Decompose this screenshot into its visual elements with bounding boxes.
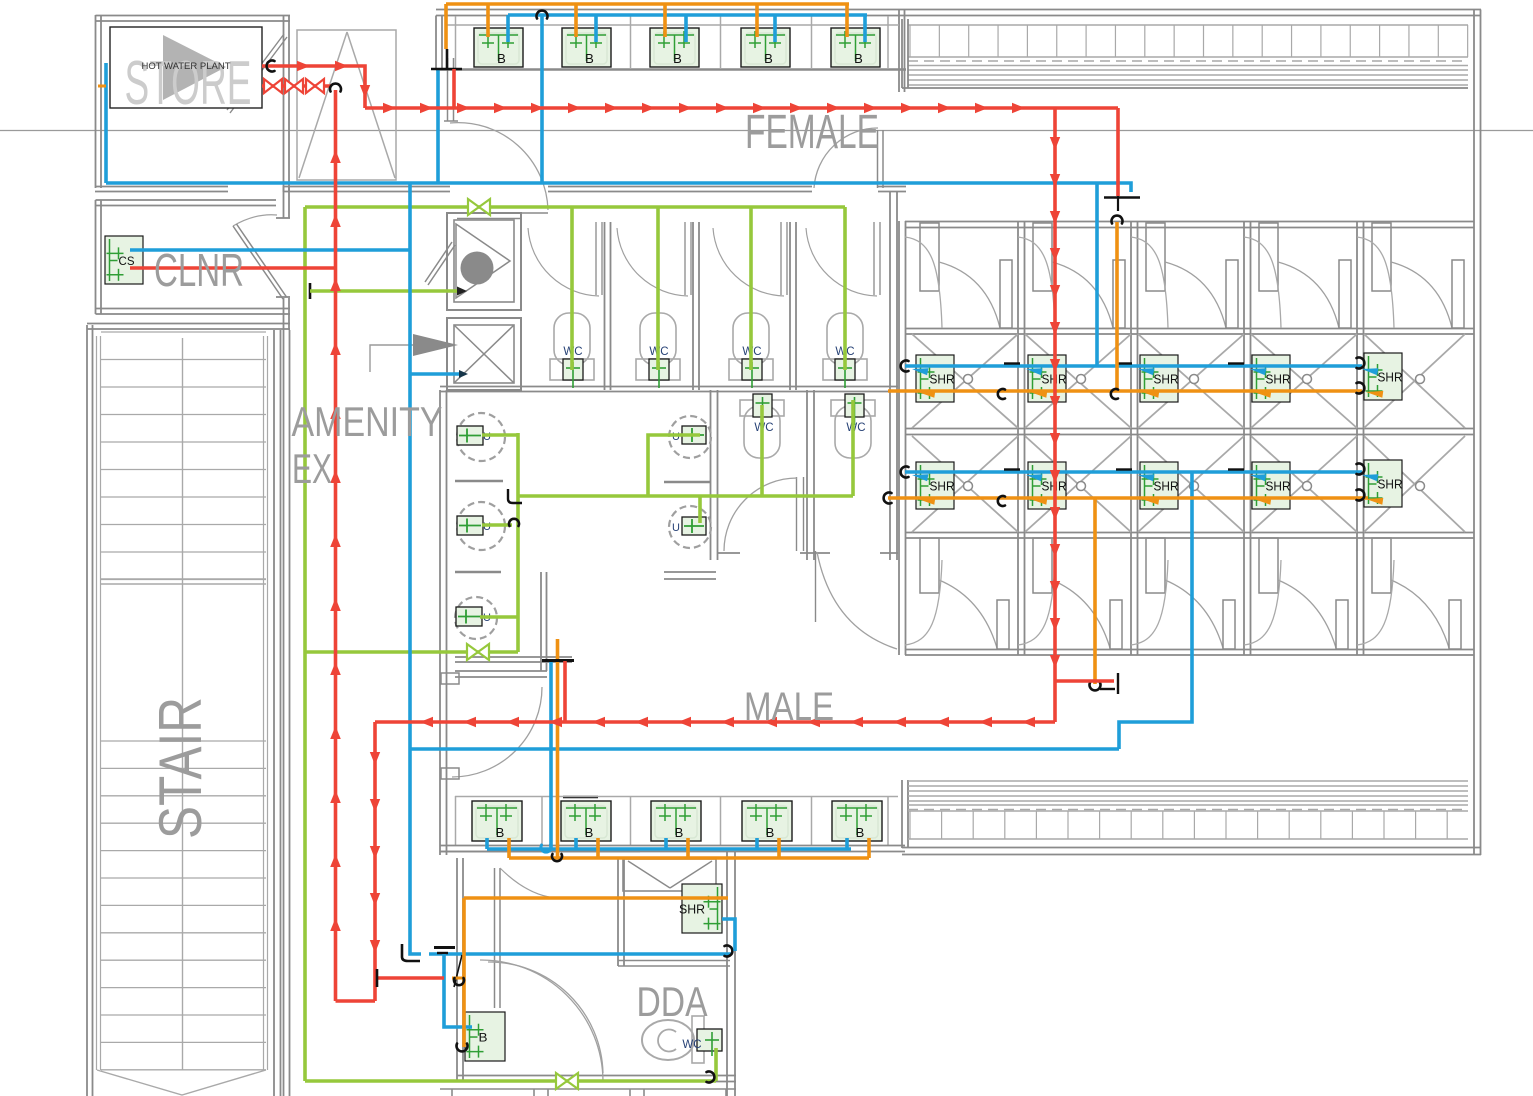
- arrow blue shr r1 b1252: [1250, 368, 1266, 375]
- arrow orange shr r2 b916: [918, 498, 935, 505]
- valve red 2: [285, 79, 294, 93]
- node hook shr r1 right: [1357, 358, 1365, 369]
- arrow red plant 1: [297, 61, 310, 71]
- tick blue shr r2 b1028: [1004, 468, 1020, 470]
- cubicle top bench c5: [1357, 237, 1394, 328]
- wall top outer: [436, 9, 1481, 11]
- wall bottom male outer: [902, 847, 1481, 849]
- wall corridor upper: [455, 670, 547, 672]
- fixture basin B4 female: [741, 28, 790, 67]
- arrow blue shr r1 b1364: [1362, 368, 1378, 375]
- wall stair left: [86, 325, 88, 1096]
- wire blue male basin drop x576: [574, 838, 578, 849]
- wall stair top: [87, 323, 290, 325]
- wire red shower riser: [1053, 108, 1057, 722]
- arrow orange shr r1 b1028: [1030, 391, 1047, 398]
- wire red female main: [365, 106, 1118, 110]
- cubicle top door c3: [1146, 223, 1165, 291]
- shower stall X r2c1: [912, 436, 1018, 532]
- wire orange male basin drop x869: [867, 838, 871, 858]
- cubicle top bench c2: [1018, 237, 1055, 328]
- svg-text:U: U: [672, 522, 680, 534]
- fixture basin B9 male: [742, 801, 792, 841]
- wire blue male basin drop x666: [664, 838, 668, 849]
- stair treads lower flight: [101, 740, 266, 742]
- wall mid horizontal: [95, 186, 228, 188]
- stair center line: [182, 338, 184, 1070]
- node hook or r1 b: [1111, 389, 1118, 399]
- wc pan: [640, 313, 676, 365]
- svg-text:SHR: SHR: [1266, 479, 1291, 494]
- wire blue fem riser: [540, 15, 544, 183]
- fixture WC3 female: [742, 359, 762, 388]
- svg-text:WC: WC: [846, 422, 865, 434]
- wire orange r2 riser: [1093, 498, 1097, 684]
- wire green wc low1 drop: [760, 405, 764, 496]
- wall shower row2 bottom: [905, 532, 1474, 534]
- wall shower left: [898, 221, 900, 655]
- wire blue dda corner: [410, 951, 421, 954]
- wire green urinal header: [518, 494, 853, 498]
- wc stall door 3: [780, 222, 782, 295]
- wire blue shower stub: [1097, 183, 1131, 192]
- svg-text:B: B: [675, 825, 684, 840]
- shower stall X r2c5: [1364, 436, 1465, 532]
- wc pan: [733, 313, 769, 365]
- fixture shower SHR4 row1: [1252, 355, 1291, 402]
- wire blue r2 riser: [1119, 472, 1192, 749]
- svg-text:CLNR: CLNR: [154, 244, 244, 296]
- arrow red plant down: [360, 85, 370, 98]
- wire blue drop basin x596: [594, 15, 598, 42]
- wall dda bottom: [457, 1075, 736, 1077]
- wire orange shr header r1: [888, 389, 1362, 393]
- wall corridor right of stair: [283, 330, 285, 1096]
- node hook red return: [330, 84, 341, 92]
- grid line full-width: [0, 130, 1533, 132]
- svg-text:MALE: MALE: [744, 685, 834, 729]
- node bars black dda: [434, 946, 455, 949]
- node black bar basin riser: [563, 796, 598, 799]
- wire blue male basin header: [487, 847, 851, 851]
- cubicle top door c2: [1033, 223, 1052, 291]
- wire blue male basin drop x847: [845, 838, 849, 849]
- svg-text:B: B: [496, 825, 505, 840]
- svg-text:WC: WC: [682, 1039, 701, 1051]
- node hook or r1 r: [1357, 383, 1365, 394]
- node hook orange dda bottom: [457, 1044, 468, 1052]
- wire blue male basin drop x757: [755, 838, 759, 849]
- wc stall partition 1: [604, 222, 606, 390]
- cubicle bot door c1: [920, 538, 939, 593]
- urinal screen right: [664, 481, 710, 484]
- shower rose r1c1: [964, 375, 973, 384]
- node green branch tick: [309, 283, 312, 299]
- arrow orange shr r1 b1140: [1142, 391, 1159, 398]
- node hook orange male header: [552, 854, 562, 861]
- node bracket urinal header end: [508, 489, 522, 503]
- wire orange male basin drop x779: [777, 838, 781, 858]
- dda exhaust box: [623, 859, 716, 891]
- arrow blue shr r2 first: [912, 474, 928, 481]
- wall between lower wcs: [806, 390, 808, 560]
- wall clnr top: [96, 199, 277, 201]
- wall urinal-wc mid: [710, 390, 712, 560]
- wire green drop wc x658: [656, 207, 660, 370]
- wire green urinal1 branch: [482, 433, 518, 437]
- shower rose r1c3: [1190, 375, 1199, 384]
- wire orange male riser: [556, 639, 560, 858]
- cubicle bot door c5: [1372, 538, 1391, 593]
- fixture shower SHR7 row2: [1028, 462, 1067, 509]
- clnr door jambs: [276, 217, 290, 219]
- arrow blue shr r1 b1140: [1138, 368, 1154, 375]
- wire red dda stub: [377, 976, 444, 980]
- wall urinal bottom left: [455, 656, 572, 658]
- wire green drop wc x572: [570, 207, 574, 370]
- cubicle bot bench c5: [1357, 560, 1394, 645]
- wire blue tee riser: [436, 69, 440, 183]
- shower stall X r2c4: [1251, 436, 1357, 532]
- fixture shower SHR3 row1: [1140, 355, 1179, 402]
- urinal bowl 5: [669, 506, 711, 548]
- node hook blue dda right: [725, 946, 733, 957]
- node tick red dda: [376, 969, 379, 987]
- wall below wc row: [440, 386, 898, 388]
- svg-text:SHR: SHR: [1378, 370, 1403, 385]
- wall shower cubicle bottom: [905, 649, 1474, 651]
- dda door arcs: [480, 960, 603, 1081]
- wc stall door 2: [684, 222, 686, 295]
- wire orange dda riser: [462, 898, 466, 1047]
- valve green lower: [467, 644, 478, 660]
- svg-text:SHR: SHR: [930, 372, 955, 387]
- wall urinal step: [540, 572, 542, 671]
- wire blue female header: [508, 13, 867, 17]
- urinal screen 1: [455, 480, 503, 483]
- fixture basin B10 male: [832, 801, 882, 841]
- urinal bowl 2: [457, 502, 505, 550]
- node hook urinal3: [509, 519, 519, 526]
- node hook or r2 l: [884, 493, 892, 504]
- wire red mix stub: [1055, 679, 1114, 683]
- wire orange shr header r2: [888, 496, 1368, 500]
- shower stall X r2c3: [1138, 436, 1244, 532]
- cubicle bot bench c4: [1244, 560, 1281, 645]
- svg-text:U: U: [483, 521, 491, 533]
- svg-text:DDA: DDA: [637, 978, 708, 1025]
- tick blue shr r2 b1140: [1116, 468, 1132, 470]
- stair rail right: [263, 336, 265, 1070]
- valve green dda: [556, 1073, 567, 1089]
- valve red 1: [264, 79, 273, 93]
- wire blue male basin riser: [549, 661, 553, 849]
- wire red tee drop: [452, 69, 456, 108]
- wire green riser main: [303, 207, 307, 1081]
- shower rose r1c4: [1303, 375, 1312, 384]
- wire orange male basin drop x688: [686, 838, 690, 858]
- wire green drop wc x751: [749, 207, 753, 370]
- wire red plant flow: [262, 66, 365, 108]
- svg-text:B: B: [856, 825, 865, 840]
- wire orange shower riser: [1115, 222, 1119, 391]
- stair rail left: [96, 336, 98, 1070]
- lockers top band: [908, 24, 1468, 26]
- wall left of top band: [435, 16, 437, 71]
- valve red 3: [306, 79, 315, 93]
- wire red riser return: [334, 90, 338, 1001]
- wire blue duct branch: [410, 372, 462, 376]
- shower rose r2c3: [1190, 482, 1199, 491]
- male basin back line: [455, 796, 898, 798]
- svg-text:WC: WC: [754, 422, 773, 434]
- male basin bay dividers: [455, 796, 457, 845]
- shower stall X r1c2: [1025, 334, 1131, 428]
- fixture cleaners sink CS: [105, 236, 143, 284]
- wire green urinal3 branch: [482, 523, 512, 527]
- wall store right: [283, 16, 285, 193]
- wire red warm feed drop: [1116, 108, 1120, 196]
- wall shower row1 top: [905, 328, 1474, 330]
- wire orange drop basin x757: [755, 4, 759, 37]
- wire orange male basin header: [509, 856, 869, 860]
- node hook black fem header: [537, 11, 548, 19]
- duct shaft box: [447, 318, 521, 390]
- fan shaft box: [447, 213, 521, 310]
- hot water plant box: [110, 27, 262, 108]
- valve green header: [468, 199, 479, 215]
- node orange dda stub: [452, 977, 464, 980]
- svg-text:B: B: [497, 51, 506, 66]
- wire green dda wc drop: [714, 1048, 718, 1081]
- shaft wall top: [457, 212, 548, 214]
- wire green urinal5 branch: [480, 615, 518, 619]
- wall dda left: [456, 858, 458, 1082]
- svg-text:B: B: [854, 51, 863, 66]
- urinal bowl 1: [457, 413, 505, 461]
- shower partition col5: [1356, 221, 1358, 655]
- door female leaf: [447, 58, 449, 121]
- ramp box: [297, 30, 396, 180]
- ramp triangle: [299, 32, 395, 178]
- node orange tick plant: [98, 85, 106, 88]
- svg-text:B: B: [585, 825, 594, 840]
- arrow orange shr r1 b1252: [1254, 391, 1271, 398]
- tick blue shr r1 b1028: [1004, 362, 1020, 364]
- wire orange drop basin x665: [663, 4, 667, 37]
- wire red male main: [375, 720, 1055, 724]
- lower wc wall segs: [718, 552, 740, 554]
- shower stall X r1c4: [1251, 334, 1357, 428]
- svg-text:B: B: [673, 51, 682, 66]
- node hook blue male header: [541, 845, 551, 852]
- wire green urinal riser: [516, 433, 520, 652]
- node hook or r1 a: [998, 389, 1005, 399]
- arrow orange shr r2 b1140: [1142, 498, 1159, 505]
- dda small arc: [500, 868, 549, 897]
- wall clnr bottom: [96, 308, 291, 310]
- wire green branch floorwaste: [310, 289, 458, 293]
- wire blue drop basin x865: [863, 15, 867, 42]
- svg-text:AMENITY: AMENITY: [292, 398, 443, 445]
- door male jamb top: [441, 673, 459, 684]
- arrow red plant 2: [335, 61, 348, 71]
- arrow blue shr r1 b1028: [1026, 368, 1042, 375]
- arrow orange shr r1 b1364: [1366, 391, 1383, 398]
- pointer arrow line: [370, 345, 413, 372]
- shaft hatch door: [425, 242, 452, 282]
- wc stall partition 3: [789, 222, 791, 390]
- fixture basin B1 female: [474, 28, 523, 67]
- wire orange male basin drop x509: [507, 838, 511, 858]
- wire green lower feed: [305, 650, 518, 654]
- arrow orange shr r2 b1364: [1366, 498, 1383, 505]
- wall clnr right: [283, 186, 285, 218]
- wire orange dda top: [464, 896, 728, 900]
- svg-text:B: B: [585, 51, 594, 66]
- node bracket blue dda corner: [402, 944, 420, 961]
- shower rose r2c2: [1077, 482, 1086, 491]
- door male jamb bottom: [441, 768, 459, 779]
- fixture urinal U1: [457, 426, 483, 445]
- cubicle top door c1: [920, 223, 939, 291]
- cubicle top door c4: [1259, 223, 1278, 291]
- basin bay dividers: [455, 16, 457, 69]
- fixture shower SHR6 row2: [916, 462, 955, 509]
- svg-text:SHR: SHR: [1154, 372, 1179, 387]
- stair treads upper flight: [101, 331, 266, 333]
- svg-text:B: B: [766, 825, 775, 840]
- door store diagonal leaf: [227, 34, 284, 110]
- wall top band separator: [898, 10, 900, 93]
- node black tee top: [446, 49, 449, 69]
- arrow blue shr r2 b1028: [1026, 474, 1042, 481]
- wire blue shr header r1: [905, 364, 1362, 368]
- wall stair right: [273, 330, 275, 1096]
- wall wc block right: [889, 192, 891, 560]
- stair direction chevron: [97, 1070, 266, 1095]
- wire red male return: [336, 999, 376, 1003]
- node hook green dda: [707, 1072, 715, 1083]
- fixture shower SHR2 row1: [1028, 355, 1067, 402]
- svg-text:SHR: SHR: [930, 479, 955, 494]
- fixture shower SHR dda: [679, 884, 722, 933]
- shower rose r2c5: [1416, 482, 1425, 491]
- node hook shr r2 left: [901, 467, 909, 478]
- wire orange riser fem left: [444, 4, 448, 49]
- fixture shower SHR10 row2: [1364, 460, 1403, 507]
- wall dda right: [726, 851, 728, 1096]
- wall right outer: [1473, 10, 1475, 856]
- wall male basin front: [440, 845, 905, 847]
- node hook shr r2 right: [1357, 464, 1365, 475]
- shower stall X r1c5: [1364, 334, 1465, 428]
- wall store left: [95, 15, 97, 188]
- node hook orange mix: [1090, 683, 1101, 691]
- svg-text:STAIR: STAIR: [147, 697, 214, 839]
- wire blue male header: [410, 747, 1119, 751]
- shower partition col2: [1017, 221, 1019, 655]
- wire green wc low2 drop: [851, 400, 855, 496]
- cubicle top bench c3: [1131, 237, 1168, 328]
- svg-text:SHR: SHR: [1378, 477, 1403, 492]
- wire blue cs: [130, 248, 410, 252]
- fixture basin B3 female: [650, 28, 699, 67]
- svg-text:SHR: SHR: [679, 902, 705, 917]
- urinal bowl 3: [455, 597, 497, 639]
- node cap male risers: [542, 659, 574, 662]
- svg-text:B: B: [764, 51, 773, 66]
- svg-text:STORE: STORE: [125, 49, 252, 118]
- wire orange drop basin x488: [486, 4, 490, 37]
- door male arc: [452, 687, 542, 777]
- node tee black shower stub: [1104, 196, 1140, 199]
- svg-text:B: B: [479, 1031, 488, 1045]
- wire green header female wc: [305, 205, 845, 209]
- shower partition col4: [1243, 221, 1245, 655]
- shower rose r1c5: [1416, 375, 1425, 384]
- hot water plant triangle: [163, 35, 226, 100]
- node hook or r2 r: [1357, 490, 1365, 501]
- wire green drop wc4: [843, 207, 847, 370]
- fixture basin B8 male: [651, 801, 701, 841]
- node hook orange dda stub: [454, 978, 464, 985]
- fixture WC5 lower: [753, 394, 772, 425]
- cubicle bot bench c1: [905, 560, 942, 645]
- arrow blue shr r2 b1364: [1362, 474, 1378, 481]
- pointer arrow head: [413, 334, 458, 356]
- basin counter back line: [446, 24, 899, 26]
- dda bottom frames: [440, 1088, 736, 1090]
- wall store top: [96, 15, 291, 17]
- svg-text:SHR: SHR: [1154, 479, 1179, 494]
- wire blue drop basin x775: [773, 15, 777, 42]
- door clnr leaf diag: [233, 226, 283, 299]
- arrow orange shr r2 b1028: [1030, 498, 1047, 505]
- node hook orange top: [1112, 216, 1123, 224]
- band left edge top: [901, 19, 903, 88]
- wall clnr left: [95, 200, 97, 314]
- wc stall door 1: [595, 222, 597, 295]
- wire orange female header: [446, 2, 849, 6]
- bench lines male band: [908, 780, 1468, 782]
- wc stall door 4: [873, 222, 875, 295]
- arrow orange shr r1 b916: [918, 391, 935, 398]
- arrow blue shr r2 b1140: [1138, 474, 1154, 481]
- fan shaft triangle: [456, 224, 510, 298]
- cubicle top bench c1: [905, 237, 942, 328]
- stair landing edge: [101, 578, 266, 580]
- wire blue drop basin x508: [506, 15, 510, 42]
- wall mid horizontal: [283, 186, 450, 188]
- wall dda top: [440, 851, 640, 853]
- wire red male down: [373, 722, 377, 1001]
- fixture urinal U5: [682, 517, 706, 535]
- fixture shower SHR5 row1: [1364, 353, 1403, 400]
- wire blue main horizontal: [106, 181, 1097, 185]
- fixture urinal U4: [682, 426, 706, 444]
- wire red plant return: [262, 84, 331, 88]
- cubicle bot bench c2: [1018, 560, 1055, 645]
- wc pan: [827, 313, 863, 365]
- wall shower top: [905, 221, 1474, 223]
- bench band left edge male: [901, 780, 903, 848]
- urinal bowl 4: [669, 416, 711, 458]
- cubicle bot bench c3: [1131, 560, 1168, 645]
- door shower arc: [814, 128, 878, 188]
- lower wc door 2: [815, 551, 817, 622]
- arrow green floorwaste: [457, 287, 467, 296]
